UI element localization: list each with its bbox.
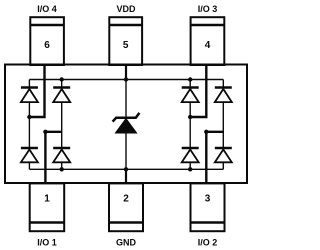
junction dot VDD-zener (124, 77, 128, 81)
pin 2 box (109, 183, 143, 231)
diode D2 upper (I/O1 to VDD) (53, 88, 70, 103)
diode D5 lower (GND to I/O4) (21, 148, 38, 162)
diode D8 lower (GND to I/O2) (215, 148, 232, 162)
junction dot node A (27, 115, 31, 119)
wire pin 4 to node C (190, 66, 206, 118)
svg-text:I/O 3: I/O 3 (198, 4, 218, 14)
wire pin 2 stub (125, 169, 127, 183)
pin 1 box (30, 183, 64, 231)
junction dot chain3-GND (188, 167, 192, 171)
diode D7 lower (GND to I/O3) (182, 148, 199, 162)
junction dot chain3-VDD (188, 77, 192, 81)
chip body outline (5, 65, 247, 184)
zener diode Z1 (VDD clamp) (113, 113, 140, 133)
junction dot node C (188, 115, 192, 119)
pin 3 box (191, 183, 225, 231)
svg-text:I/O 2: I/O 2 (198, 238, 218, 248)
diode D3 upper (I/O3 to VDD) (182, 88, 199, 103)
wire pin 6 to node A (29, 66, 44, 118)
wire pin 1 to node B (45, 132, 61, 184)
wire zener vertical (125, 80, 127, 170)
pin 5 box (109, 17, 142, 65)
pin 6 box (30, 17, 64, 65)
svg-text:1: 1 (44, 193, 50, 204)
svg-text:4: 4 (205, 40, 211, 51)
pin 4 box (191, 17, 225, 65)
diode D1 upper (I/O4 to VDD) (21, 88, 38, 103)
wire VDD rail (29, 79, 223, 81)
svg-text:2: 2 (123, 193, 129, 204)
junction dot chain2-VDD (60, 77, 64, 81)
junction dot chain2-GND (60, 167, 64, 171)
wire chain 1 vertical (28, 80, 30, 170)
svg-text:5: 5 (123, 40, 129, 51)
wire chain 2 vertical (61, 80, 63, 170)
svg-text:3: 3 (205, 193, 211, 204)
svg-text:GND: GND (116, 238, 137, 248)
wire pin 3 to node D (206, 132, 223, 184)
diode D4 upper (I/O2 to VDD) (215, 88, 232, 103)
junction dot node B (43, 130, 47, 134)
wire chain 4 vertical (222, 80, 224, 170)
svg-text:6: 6 (44, 40, 50, 51)
svg-text:I/O 1: I/O 1 (37, 238, 57, 248)
svg-text:VDD: VDD (116, 4, 136, 14)
junction dot GND-zener (124, 167, 128, 171)
wire GND rail (29, 168, 223, 170)
wire pin 5 stub (125, 66, 127, 80)
svg-text:I/O 4: I/O 4 (37, 4, 57, 14)
junction dot node D (204, 130, 208, 134)
wire chain 3 vertical (189, 80, 191, 170)
diode D6 lower (GND to I/O1) (53, 148, 70, 162)
